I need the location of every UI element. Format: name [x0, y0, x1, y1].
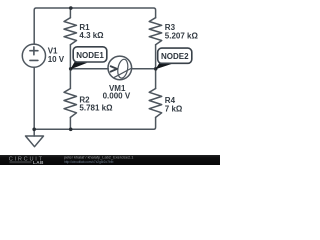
- svg-text:LAB: LAB: [33, 160, 44, 165]
- wire VM1 left: [70, 68, 108, 70]
- wire left bottom (V1 to bottom rail): [33, 67, 35, 129]
- svg-text:7 kΩ: 7 kΩ: [165, 104, 183, 113]
- svg-text:NODE1: NODE1: [76, 51, 104, 60]
- wire R1 branch top: [69, 8, 71, 18]
- voltmeter VM1 circle: [108, 56, 132, 80]
- resistor R1: [64, 18, 77, 45]
- svg-text:http://circuitlab.com/c7x2g8r2: http://circuitlab.com/c7x2g8r2o7bfb: [64, 160, 114, 164]
- svg-text:0.000 V: 0.000 V: [103, 91, 131, 100]
- svg-text:5.207 kΩ: 5.207 kΩ: [165, 32, 199, 41]
- wire node1 to R2: [69, 69, 71, 89]
- VM1 gauge ellipse: [116, 59, 129, 79]
- NODE1 flag box: [73, 47, 107, 62]
- V1 minus sign: [30, 59, 38, 61]
- svg-text:5.781 kΩ: 5.781 kΩ: [79, 104, 113, 113]
- junction node B (NODE2 junction): [154, 67, 158, 71]
- NODE2 flag box: [158, 48, 192, 63]
- svg-text:4.3 kΩ: 4.3 kΩ: [79, 31, 104, 40]
- resistor R2: [64, 89, 77, 118]
- wire top horizontal: [34, 8, 155, 44]
- footer logo lines: [10, 161, 32, 162]
- wire R2 bottom: [69, 117, 71, 129]
- svg-text:R3: R3: [165, 23, 176, 32]
- junction dot ground tee: [32, 128, 36, 132]
- wire node2 to R4: [155, 69, 157, 89]
- junction node A (NODE1 junction): [69, 67, 73, 71]
- NODE1 callout tail: [70, 62, 87, 70]
- VM1 polarity chevron: [111, 66, 117, 71]
- wire R1 to node1: [69, 45, 71, 69]
- wire R3 to node2: [155, 45, 157, 69]
- resistor R4: [149, 89, 162, 118]
- ground: [26, 136, 44, 147]
- wire bottom rail: [34, 117, 155, 129]
- V1 plus sign: [30, 47, 38, 55]
- junction dot R2 bottom: [69, 128, 73, 132]
- ground stub: [33, 129, 35, 136]
- svg-text:NODE2: NODE2: [161, 52, 189, 61]
- svg-text:10 V: 10 V: [48, 55, 65, 64]
- junction dot top (R1/top rail): [69, 6, 73, 10]
- voltage source V1 circle: [22, 44, 45, 67]
- VM1 needle: [114, 68, 132, 78]
- svg-text:peter khalaf / khalafp_Lab2_Ex: peter khalaf / khalafp_Lab2_Exercise2.1: [64, 154, 133, 159]
- resistor R3: [149, 18, 162, 45]
- NODE2 callout tail: [156, 63, 172, 69]
- wire VM1 right: [132, 68, 156, 70]
